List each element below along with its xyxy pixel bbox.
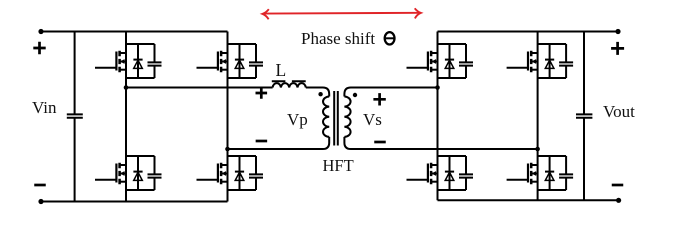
cell top conductor bbox=[126, 43, 155, 45]
MOSFET bulk tap with arrow bbox=[221, 61, 227, 63]
cell bottom conductor bbox=[538, 189, 567, 191]
MOSFET gate bar bbox=[217, 52, 219, 71]
left input terminal - (dot) bbox=[38, 199, 43, 204]
switch cell S2: MOSFET with body diode and parallel capacitor bbox=[95, 156, 162, 190]
cell bottom conductor bbox=[538, 77, 567, 79]
diode cathode bar bbox=[545, 171, 554, 173]
cell top conductor bbox=[228, 43, 257, 45]
MOSFET drain tap bbox=[531, 52, 537, 54]
wire: left bottom rail bbox=[41, 201, 228, 203]
input + mark bbox=[33, 42, 45, 54]
switch cell S5: MOSFET with body diode and parallel capacitor bbox=[407, 44, 474, 78]
snubber capacitor C-S1 branch bbox=[154, 44, 156, 78]
MOSFET gate bar bbox=[115, 52, 117, 71]
MOSFET drain tap bbox=[431, 52, 437, 54]
node: leg2 lower junction bbox=[225, 147, 230, 152]
body diode D-S1 branch bbox=[137, 44, 139, 78]
cell bottom conductor bbox=[228, 77, 257, 79]
capacitor Cin plates bbox=[67, 114, 83, 117]
wire: inductor to primary winding, corner down bbox=[306, 88, 329, 97]
MOSFET source tap bbox=[531, 181, 537, 183]
cell bottom conductor bbox=[438, 189, 467, 191]
label Vp bbox=[287, 110, 308, 130]
diode cathode bar bbox=[133, 59, 142, 61]
MOSFET channel segments bbox=[430, 163, 433, 184]
MOSFET Q-S5 gate lead bbox=[407, 67, 428, 69]
switch cell S8: MOSFET with body diode and parallel capacitor bbox=[507, 156, 573, 190]
inductor L (4 scallops with top bars) bbox=[272, 81, 306, 87]
MOSFET source tap bbox=[431, 181, 437, 183]
transformer secondary winding Vs bbox=[344, 97, 350, 137]
capacitor plates bbox=[559, 62, 573, 65]
MOSFET bulk tap with arrow bbox=[431, 61, 437, 63]
MOSFET bulk tap with arrow bbox=[120, 173, 126, 175]
secondary - mark bbox=[374, 141, 386, 144]
primary + mark bbox=[256, 87, 268, 99]
diode cathode bar bbox=[545, 59, 554, 61]
label L bbox=[276, 60, 287, 81]
MOSFET channel segments bbox=[220, 51, 223, 72]
secondary + mark bbox=[373, 93, 385, 105]
cell bottom conductor bbox=[228, 189, 257, 191]
transformer primary winding Vp bbox=[323, 97, 329, 137]
capacitor plates bbox=[148, 62, 162, 65]
snubber capacitor C-S7 branch bbox=[565, 44, 567, 78]
cell bottom conductor bbox=[126, 189, 155, 191]
wire: right bridge leg 2 bbox=[537, 32, 539, 201]
body diode D-S7 branch bbox=[549, 44, 551, 78]
wire: left top rail bbox=[41, 31, 228, 33]
label Phase shift bbox=[301, 29, 375, 49]
MOSFET bulk tap with arrow bbox=[120, 61, 126, 63]
MOSFET drain tap bbox=[431, 164, 437, 166]
left input terminal + (dot) bbox=[38, 29, 43, 34]
MOSFET source tap bbox=[531, 69, 537, 71]
MOSFET Q-S1 gate lead bbox=[95, 67, 116, 69]
diode triangle bbox=[235, 60, 244, 68]
snubber capacitor C-S4 branch bbox=[255, 156, 257, 190]
MOSFET gate bar bbox=[115, 164, 117, 183]
capacitor plates bbox=[559, 174, 573, 177]
MOSFET Q-S4 gate lead bbox=[197, 179, 218, 181]
secondary polarity dot bbox=[353, 93, 357, 97]
MOSFET gate bar bbox=[527, 52, 529, 71]
wire: secondary top to right bridge leg1 bbox=[344, 88, 437, 97]
body diode D-S4 branch bbox=[239, 156, 241, 190]
cell top conductor bbox=[538, 155, 567, 157]
diode triangle bbox=[545, 172, 554, 180]
MOSFET bulk tap with arrow bbox=[531, 61, 537, 63]
capacitor Cin branch wire bbox=[74, 32, 76, 202]
MOSFET source tap bbox=[221, 181, 227, 183]
body diode D-S2 branch bbox=[137, 156, 139, 190]
diode cathode bar bbox=[133, 171, 142, 173]
diode triangle bbox=[134, 60, 143, 68]
MOSFET bulk tap with arrow bbox=[531, 173, 537, 175]
wire: right bridge leg 1 bbox=[437, 32, 439, 201]
greek letter theta (phase shift symbol) bbox=[385, 32, 395, 44]
body diode D-S5 branch bbox=[449, 44, 451, 78]
diode triangle bbox=[545, 60, 554, 68]
node: leg1 midpoint junction bbox=[124, 85, 129, 90]
phase shift red double arrow bbox=[262, 8, 421, 19]
diode cathode bar bbox=[445, 59, 454, 61]
MOSFET channel segments bbox=[530, 51, 533, 72]
body diode D-S3 branch bbox=[239, 44, 241, 78]
right output terminal + (dot) bbox=[615, 29, 620, 34]
MOSFET drain tap bbox=[221, 52, 227, 54]
diode triangle bbox=[445, 172, 454, 180]
MOSFET source tap bbox=[120, 69, 126, 71]
wire: right top rail bbox=[438, 31, 619, 33]
MOSFET drain tap bbox=[120, 164, 126, 166]
capacitor Cout plates bbox=[576, 114, 592, 117]
snubber capacitor C-S3 branch bbox=[255, 44, 257, 78]
cell top conductor bbox=[438, 43, 467, 45]
MOSFET gate bar bbox=[217, 164, 219, 183]
output + mark bbox=[611, 42, 624, 55]
capacitor plates bbox=[249, 174, 263, 177]
cell bottom conductor bbox=[126, 77, 155, 79]
MOSFET channel segments bbox=[530, 163, 533, 184]
capacitor Cout branch wire bbox=[583, 32, 585, 201]
wire: right bottom rail bbox=[438, 199, 619, 201]
MOSFET gate bar bbox=[427, 164, 429, 183]
transformer core bbox=[334, 91, 338, 146]
MOSFET bulk tap with arrow bbox=[431, 173, 437, 175]
diode cathode bar bbox=[445, 171, 454, 173]
diode triangle bbox=[134, 172, 143, 180]
MOSFET Q-S8 gate lead bbox=[507, 179, 528, 181]
snubber capacitor C-S8 branch bbox=[565, 156, 567, 190]
diode triangle bbox=[445, 60, 454, 68]
node: right bridge leg1 midpoint junction bbox=[435, 85, 440, 90]
MOSFET bulk tap with arrow bbox=[221, 173, 227, 175]
cell bottom conductor bbox=[438, 77, 467, 79]
MOSFET channel segments bbox=[220, 163, 223, 184]
switch cell S3: MOSFET with body diode and parallel capacitor bbox=[197, 44, 264, 78]
wire: secondary bottom to right bridge leg2 bbox=[344, 137, 537, 149]
diode cathode bar bbox=[235, 171, 244, 173]
cell top conductor bbox=[438, 155, 467, 157]
diode triangle bbox=[235, 172, 244, 180]
wire: left bridge leg 1 bbox=[125, 32, 127, 202]
switch cell S6: MOSFET with body diode and parallel capacitor bbox=[407, 156, 474, 190]
output - mark bbox=[612, 184, 624, 187]
label Vin bbox=[32, 98, 56, 118]
MOSFET source tap bbox=[120, 181, 126, 183]
snubber capacitor C-S6 branch bbox=[465, 156, 467, 190]
primary polarity dot bbox=[318, 92, 322, 96]
label HFT bbox=[323, 156, 354, 176]
cell top conductor bbox=[126, 155, 155, 157]
capacitor plates bbox=[148, 174, 162, 177]
MOSFET drain tap bbox=[120, 52, 126, 54]
capacitor plates bbox=[459, 62, 473, 65]
diode cathode bar bbox=[235, 59, 244, 61]
MOSFET source tap bbox=[431, 69, 437, 71]
capacitor plates bbox=[249, 62, 263, 65]
switch cell S1: MOSFET with body diode and parallel capacitor bbox=[95, 44, 162, 78]
wire: primary winding bottom to leg2 junction bbox=[228, 137, 330, 149]
switch cell S4: MOSFET with body diode and parallel capacitor bbox=[197, 156, 264, 190]
body diode D-S6 branch bbox=[449, 156, 451, 190]
MOSFET channel segments bbox=[118, 163, 121, 184]
wire: left bridge leg 2 bbox=[227, 32, 229, 202]
MOSFET channel segments bbox=[430, 51, 433, 72]
MOSFET Q-S2 gate lead bbox=[95, 179, 116, 181]
MOSFET gate bar bbox=[427, 52, 429, 71]
MOSFET Q-S6 gate lead bbox=[407, 179, 428, 181]
MOSFET Q-S7 gate lead bbox=[507, 67, 528, 69]
snubber capacitor C-S5 branch bbox=[465, 44, 467, 78]
cell top conductor bbox=[228, 155, 257, 157]
MOSFET drain tap bbox=[531, 164, 537, 166]
cell top conductor bbox=[538, 43, 567, 45]
right output terminal - (dot) bbox=[616, 198, 621, 203]
label Vout bbox=[603, 102, 635, 122]
body diode D-S8 branch bbox=[549, 156, 551, 190]
MOSFET gate bar bbox=[527, 164, 529, 183]
input - mark bbox=[34, 184, 46, 187]
MOSFET source tap bbox=[221, 69, 227, 71]
MOSFET Q-S3 gate lead bbox=[197, 67, 218, 69]
switch cell S7: MOSFET with body diode and parallel capacitor bbox=[507, 44, 573, 78]
MOSFET drain tap bbox=[221, 164, 227, 166]
label Vs bbox=[363, 110, 382, 130]
primary - mark bbox=[256, 140, 268, 143]
wire: leg1 mid to inductor bbox=[126, 87, 273, 89]
node: right bridge leg2 lower junction bbox=[535, 147, 540, 152]
snubber capacitor C-S2 branch bbox=[154, 156, 156, 190]
capacitor plates bbox=[459, 174, 473, 177]
MOSFET channel segments bbox=[118, 51, 121, 72]
